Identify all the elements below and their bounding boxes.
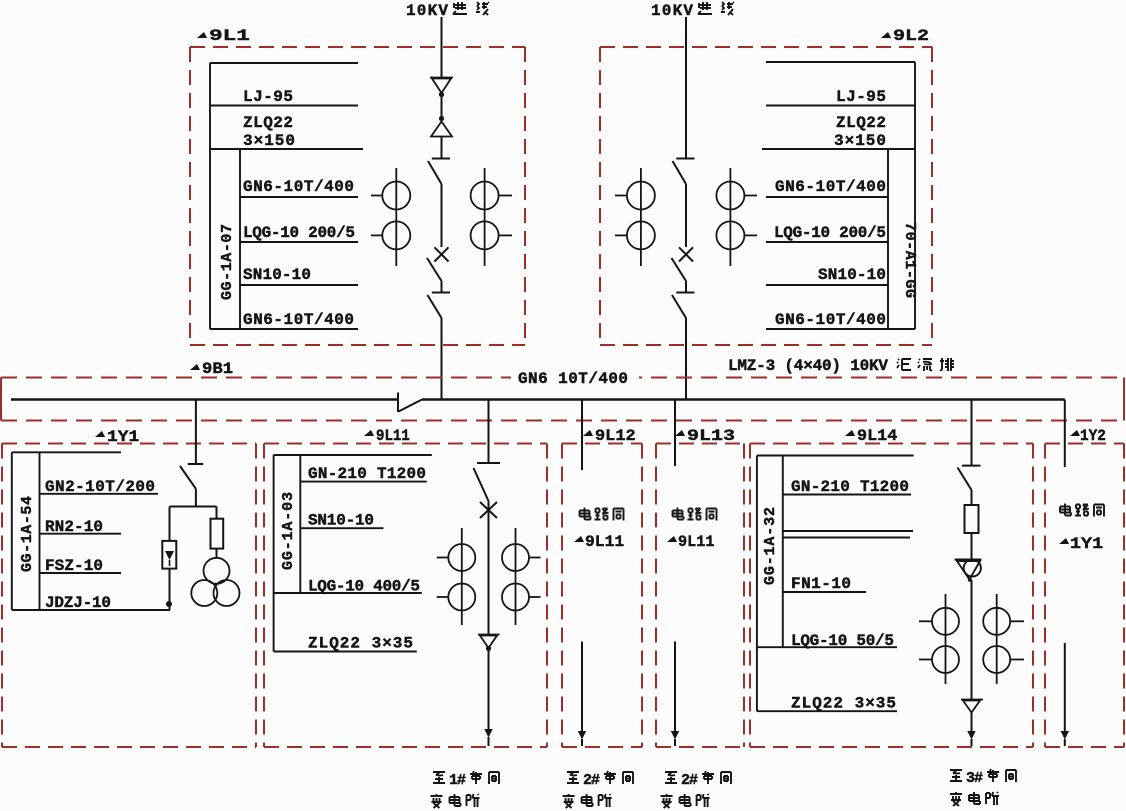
CT group -9L14 right <box>983 594 1024 684</box>
text same-circuit -9L13 <box>667 508 717 552</box>
svg-text:GN-210 T1200: GN-210 T1200 <box>791 478 909 496</box>
label -9L2 <box>881 28 929 46</box>
text same-circuit -9L12 <box>574 508 624 551</box>
svg-text:SN10-10: SN10-10 <box>818 266 886 284</box>
label -1Y2 <box>1070 426 1106 445</box>
svg-text:ZLQ22 3×35: ZLQ22 3×35 <box>308 635 413 653</box>
svg-text:GN6-10T/400: GN6-10T/400 <box>243 311 354 329</box>
svg-text:1#: 1# <box>449 772 466 789</box>
table texts -9L1 <box>243 88 355 329</box>
svg-text:70-A1-GG: 70-A1-GG <box>901 222 918 298</box>
destination label under -9L14 <box>950 769 1016 806</box>
incoming feeder label 10KV right <box>651 2 734 20</box>
svg-text:LJ-95: LJ-95 <box>243 88 293 106</box>
table texts -9L2 <box>774 88 886 329</box>
-1Y1 feeder tap wire <box>170 400 217 507</box>
breaker X on left feeder (SN10-10) <box>427 247 449 281</box>
svg-text:FN1-10: FN1-10 <box>791 575 851 593</box>
CT group right-left <box>615 168 655 266</box>
svg-text:GN2-10T/200: GN2-10T/200 <box>45 478 155 496</box>
svg-text:1Y2: 1Y2 <box>1080 426 1106 445</box>
table of cabinet -9L11 <box>274 455 432 652</box>
svg-text:2#: 2# <box>681 772 698 789</box>
svg-text:9L11: 9L11 <box>585 533 624 551</box>
svg-text:GN6 10T/400: GN6 10T/400 <box>518 370 628 388</box>
load break switch FN1-10 symbol <box>955 559 982 581</box>
table of cabinet -9L14 <box>757 456 914 712</box>
svg-text:ZLQ22: ZLQ22 <box>836 114 886 132</box>
svg-text:GN-210 T1200: GN-210 T1200 <box>308 465 426 483</box>
svg-text:ZLQ22: ZLQ22 <box>243 114 293 132</box>
svg-text:JDZJ-10: JDZJ-10 <box>45 594 111 612</box>
svg-text:9L14: 9L14 <box>857 426 897 445</box>
incoming feeder label 10KV left <box>406 2 489 20</box>
CT group -9L14 left <box>919 594 959 684</box>
-9L12 feeder wire <box>581 400 583 746</box>
-9L14 feeder wire <box>958 400 981 746</box>
CT group left-left (LQG-10 200/5) <box>371 168 410 266</box>
svg-text:LJ-95: LJ-95 <box>836 88 886 106</box>
destination label under -9L13 <box>661 771 731 808</box>
bottom cabinet box -1Y2 dashed <box>1045 444 1124 748</box>
CT group -9L11 left <box>437 528 476 625</box>
cabinet box -9L2 dashed <box>600 47 932 345</box>
disconnect switch 2 on right feeder <box>672 293 695 319</box>
label -9L12 <box>583 426 636 444</box>
svg-text:SN10-10: SN10-10 <box>308 512 374 530</box>
svg-text:SN10-10: SN10-10 <box>243 266 311 284</box>
svg-text:2#: 2# <box>583 772 600 789</box>
svg-text:1Y1: 1Y1 <box>1070 536 1103 554</box>
table texts -9L11 <box>308 465 426 653</box>
busbar line <box>11 398 1065 401</box>
label -9L14 <box>845 426 897 445</box>
svg-text:9B1: 9B1 <box>202 360 233 378</box>
svg-text:GG-1A-54: GG-1A-54 <box>19 496 36 572</box>
-9L11 feeder wire <box>474 400 501 746</box>
left incoming feeder wire x=441.5 <box>441 17 443 399</box>
right incoming feeder wire x=686 <box>685 17 687 399</box>
svg-text:9L13: 9L13 <box>687 428 735 446</box>
fuse -9L14 <box>965 505 979 533</box>
svg-text:3×150: 3×150 <box>834 132 886 150</box>
cable head up-triangle on left feeder <box>431 116 452 137</box>
PT JDZJ-10 three-circle symbol <box>191 558 239 606</box>
load arrow -9L11 <box>484 729 492 738</box>
cabinet box -9L1 dashed <box>190 47 525 345</box>
bottom cabinet box -1Y1 dashed <box>2 444 256 748</box>
-9L13 feeder wire <box>674 400 676 746</box>
cable head down-triangle on left feeder <box>430 78 453 98</box>
CT group left-right <box>471 168 512 266</box>
disconnect switch 1 on right feeder <box>673 159 695 185</box>
table of cabinet -9L1 <box>210 63 363 329</box>
surge arrester FSZ-10 branch <box>162 507 176 611</box>
svg-text:RN2-10: RN2-10 <box>45 518 103 536</box>
bottom cabinet box -9L14 dashed <box>750 444 1033 748</box>
-1Y2 feeder wire from bus corner <box>1064 400 1066 747</box>
load arrow -9L12 <box>578 731 586 740</box>
svg-text:GN6-10T/400: GN6-10T/400 <box>775 178 886 196</box>
white patch for bus label <box>511 367 639 387</box>
bottom cabinet box -9L11 dashed <box>264 444 547 748</box>
svg-text:LMZ-3 (4×40) 10KV: LMZ-3 (4×40) 10KV <box>728 357 888 375</box>
svg-text:9L12: 9L12 <box>595 426 636 444</box>
svg-text:LQG-10 200/5: LQG-10 200/5 <box>774 224 886 242</box>
label -9L11 <box>364 426 410 445</box>
svg-text:GN6-10T/400: GN6-10T/400 <box>775 311 886 329</box>
svg-text:LQG-10 400/5: LQG-10 400/5 <box>308 578 420 596</box>
table of cabinet -1Y1 <box>12 452 170 610</box>
svg-text:LQG-10 200/5: LQG-10 200/5 <box>243 224 355 242</box>
svg-text:GG-1A-03: GG-1A-03 <box>280 492 297 570</box>
svg-text:9L2: 9L2 <box>893 28 929 46</box>
CT group -9L11 right <box>502 528 541 625</box>
svg-text:FSZ-10: FSZ-10 <box>45 557 103 575</box>
load arrow -9L14 <box>967 731 975 740</box>
svg-text:LQG-10 50/5: LQG-10 50/5 <box>791 632 894 650</box>
disconnect switch 2 on left feeder <box>428 293 451 319</box>
cable head -9L14 <box>961 700 983 713</box>
destination label under -9L11 <box>431 771 500 808</box>
svg-text:3#: 3# <box>966 770 983 787</box>
svg-text:9L11: 9L11 <box>678 533 714 551</box>
svg-text:GN6-10T/400: GN6-10T/400 <box>243 178 354 196</box>
svg-text:ZLQ22 3×35: ZLQ22 3×35 <box>791 695 896 713</box>
breaker X on right feeder <box>672 247 694 281</box>
CT group right-right <box>716 168 757 266</box>
busbar box -9B1 dashed <box>1 378 1124 421</box>
table texts -9L14 <box>791 478 909 713</box>
busbar break symbol <box>398 393 422 413</box>
bottom cabinet box -9L13 dashed <box>656 444 744 748</box>
table texts -1Y1 <box>45 478 155 612</box>
cable head -9L11 <box>478 635 500 652</box>
svg-text:GG-1A-32: GG-1A-32 <box>762 507 779 585</box>
label -9L1 <box>197 27 250 45</box>
label -1Y1 <box>95 429 139 447</box>
svg-text:9L1: 9L1 <box>209 27 250 45</box>
load arrow -1Y2 <box>1061 731 1069 740</box>
PT fuse RN2-10 branch <box>211 507 224 559</box>
text same-circuit -1Y2 <box>1059 504 1104 554</box>
label -9L13 <box>675 428 735 446</box>
destination label under -9L12 <box>563 771 633 808</box>
svg-text:3×150: 3×150 <box>243 132 295 150</box>
label -9B1 <box>190 360 233 378</box>
svg-text:GG-1A-07: GG-1A-07 <box>219 224 236 300</box>
bus label LMZ-3 (4x40) 10KV busbar <box>728 357 954 375</box>
breaker X -9L11 <box>480 502 497 518</box>
bottom cabinet box -9L12 dashed <box>562 444 642 748</box>
disconnect switch 1 on left feeder <box>428 159 450 185</box>
svg-text:1Y1: 1Y1 <box>107 429 139 447</box>
svg-text:9L11: 9L11 <box>376 426 410 445</box>
svg-text:10KV: 10KV <box>651 2 693 20</box>
load arrow -9L13 <box>671 731 679 740</box>
table of cabinet -9L2 <box>762 62 915 329</box>
